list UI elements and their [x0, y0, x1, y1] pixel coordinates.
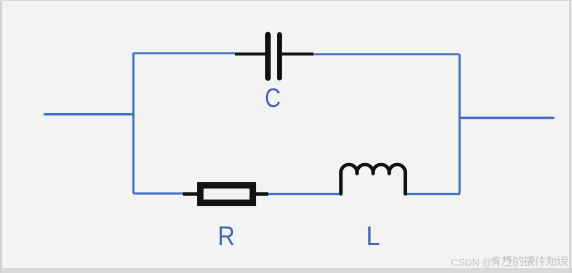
svg-text:CSDN @: CSDN @: [451, 258, 492, 269]
svg-text:R: R: [218, 222, 235, 251]
svg-text:L: L: [366, 223, 380, 252]
svg-text:C: C: [265, 84, 281, 113]
